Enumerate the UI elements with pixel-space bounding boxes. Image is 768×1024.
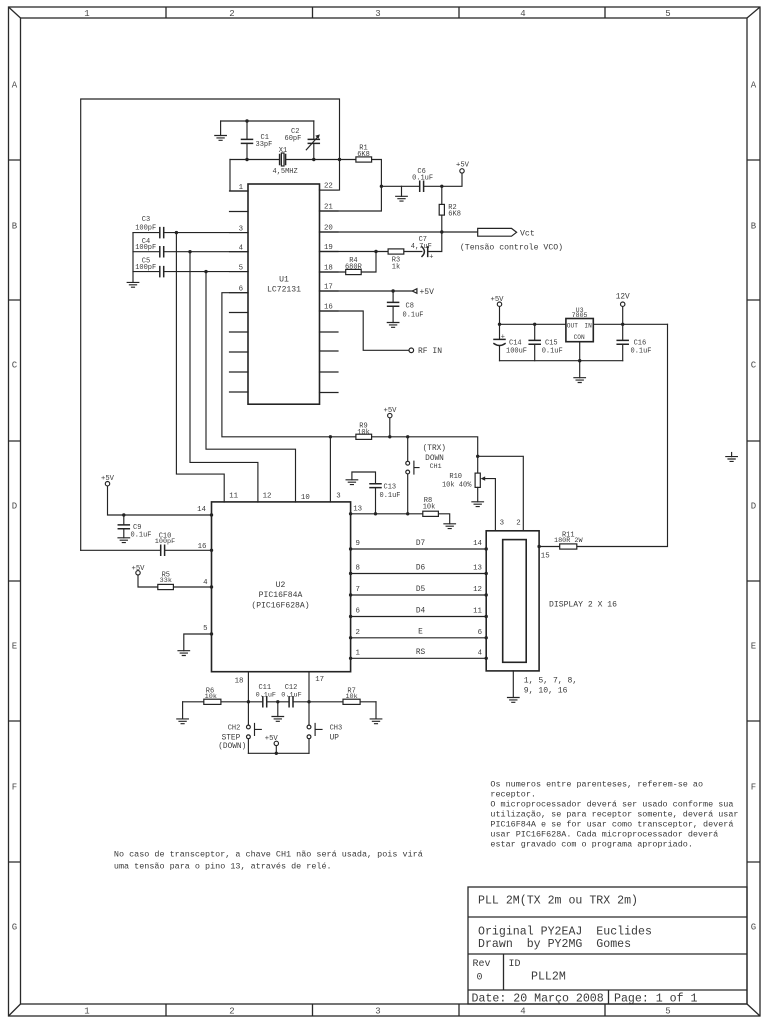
svg-text:D6: D6 — [416, 564, 426, 572]
junction R10/display2 node — [476, 455, 479, 458]
U1 pin numbers left: 1,3,4,5,6 — [239, 184, 244, 294]
junction U2 pin16 — [210, 549, 213, 552]
wire display bottom ground stub — [512, 671, 514, 698]
wire U1 pin5 to U2 pin10 — [206, 272, 296, 502]
junction +5V tap R9 line — [388, 435, 391, 438]
svg-text:2: 2 — [229, 9, 234, 19]
ground G14 (display) — [508, 698, 520, 703]
svg-text:11: 11 — [229, 493, 238, 501]
resistor R4 — [346, 269, 362, 274]
capacitor C15 — [529, 340, 540, 344]
svg-text:Rev: Rev — [473, 959, 491, 970]
svg-text:(TRX): (TRX) — [423, 445, 446, 453]
label R11 180R 2W — [554, 532, 583, 546]
ground G13 (C13) — [346, 480, 358, 485]
wire +5V switches stem — [275, 746, 277, 754]
svg-text:13: 13 — [473, 565, 482, 573]
svg-text:uma tensão para o pino 13, atr: uma tensão para o pino 13, através de re… — [114, 862, 332, 872]
label R7 10k — [345, 687, 357, 701]
capacitor C7 (polarized) — [422, 247, 434, 262]
svg-text:10k 40%: 10k 40% — [442, 481, 472, 489]
svg-text:A: A — [751, 81, 757, 91]
wire U1 pin17 to +5V — [320, 290, 413, 292]
svg-text:R10: R10 — [449, 473, 462, 481]
label C5 100pF — [135, 258, 156, 273]
wire U1 C5 line — [133, 271, 248, 273]
junction display pin15 node — [537, 545, 540, 548]
wire +5V stem (R9 line) — [389, 418, 391, 437]
label CH1 (TRX) DOWN — [423, 445, 446, 470]
wire R6/C11/C12/R7 line — [183, 701, 376, 703]
ground G7 (U2 pin5) — [178, 651, 190, 656]
svg-text:G: G — [12, 923, 17, 933]
wire crystal line (XIN/XOUT) — [230, 159, 356, 161]
label C9 0.1uF — [131, 524, 152, 540]
wire R10 wiper to display pin3 — [483, 479, 495, 531]
wire U1 pin19 / R3 / C7 — [320, 232, 442, 252]
svg-text:4,7uF: 4,7uF — [411, 243, 432, 251]
wire U1 pin16 to RF IN — [320, 311, 410, 350]
switch CH2 — [247, 702, 262, 754]
svg-text:18: 18 — [235, 677, 244, 685]
junction pin3 drop — [175, 231, 178, 234]
wire CH2-CH3 bottom link — [248, 752, 309, 754]
resistor R11 — [560, 544, 577, 549]
resistor R7 — [343, 699, 360, 704]
wire oscillator loop box to C10 bus — [81, 99, 340, 550]
wire 7805 CON to ground — [579, 342, 581, 378]
power P1 (C6 line) +5V — [460, 169, 464, 173]
svg-text:14: 14 — [197, 506, 206, 514]
svg-text:LC72131: LC72131 — [267, 286, 301, 295]
label C4 100pF — [135, 238, 156, 252]
junction display pin12 — [485, 593, 488, 596]
svg-text:12: 12 — [263, 493, 272, 501]
svg-text:9: 9 — [356, 540, 360, 548]
label C7 4,7uF — [411, 236, 432, 251]
svg-text:100uF: 100uF — [506, 348, 527, 356]
svg-text:10k: 10k — [357, 429, 370, 437]
U2 pin numbers left: 14,16,4,5 — [197, 506, 208, 633]
R10 wiper arrowhead — [481, 476, 486, 480]
junction C14 top — [498, 323, 501, 326]
svg-text:10k: 10k — [423, 504, 436, 512]
ground G15 (standalone right) — [726, 457, 738, 462]
wire U1 C3 line — [133, 232, 248, 234]
wire C13 branch — [352, 472, 376, 514]
wire U2 pin17 stub — [308, 672, 310, 702]
capacitor C4 — [160, 247, 164, 257]
junction pin20/R2/C7 node — [440, 230, 443, 233]
svg-text:Vct: Vct — [520, 229, 535, 238]
ground G9 (R6) — [177, 719, 189, 724]
junction display pin4 — [485, 657, 488, 660]
junction display pin11 — [485, 615, 488, 618]
junction U2 pin3 drop — [329, 435, 332, 438]
svg-text:+5V: +5V — [491, 296, 505, 304]
ground G2 (C6 line) — [396, 196, 408, 201]
wire D7 line (U2 pin 9 to display pin 14) — [351, 548, 487, 550]
svg-text:1: 1 — [84, 1007, 89, 1017]
svg-text:C: C — [751, 361, 757, 371]
label C6 0.1uF — [412, 168, 433, 183]
junction U2 pin1 — [349, 657, 352, 660]
svg-text:Date: 20 Março 2008: Date: 20 Março 2008 — [472, 992, 604, 1005]
label R3 1k — [392, 256, 400, 271]
svg-text:No caso de transceptor, a chav: No caso de transceptor, a chave CH1 não … — [114, 850, 423, 860]
ground G5 (R10) — [472, 502, 484, 507]
wire C3/C4/C5 ground bus — [132, 233, 134, 283]
capacitor C6 — [420, 181, 424, 191]
label R10 10k 40% — [442, 473, 472, 489]
power P5 (12V) 12V — [621, 302, 625, 306]
wire R2 branch — [441, 186, 443, 232]
label R1 6K8 — [357, 144, 370, 159]
svg-text:Drawn by PY2MG Gomes: Drawn by PY2MG Gomes — [478, 938, 631, 951]
svg-text:12: 12 — [473, 586, 482, 594]
capacitor C12 — [289, 697, 293, 707]
crystal X1 — [280, 153, 286, 166]
svg-text:33k: 33k — [160, 577, 172, 585]
svg-text:2: 2 — [356, 629, 360, 637]
svg-text:E: E — [751, 642, 756, 652]
svg-text:1: 1 — [84, 9, 89, 19]
svg-text:+5V: +5V — [456, 162, 470, 170]
wire R11 to 12V rail — [539, 324, 667, 546]
svg-text:0.1uF: 0.1uF — [131, 532, 152, 540]
svg-text:0.1uF: 0.1uF — [380, 492, 401, 500]
junction display pin13 — [485, 572, 488, 575]
svg-text:ID: ID — [509, 959, 521, 970]
wire U1 pin4 to U2 pin12 — [190, 252, 258, 502]
svg-text:C13: C13 — [384, 483, 397, 491]
IC U2 PIC16F84A body — [212, 502, 351, 672]
IC U3 7805 body — [566, 307, 593, 342]
svg-text:3: 3 — [375, 9, 380, 19]
label X1 4,5MHZ — [273, 147, 298, 176]
svg-text:CH3: CH3 — [330, 725, 343, 733]
svg-text:1k: 1k — [392, 263, 400, 271]
wire U2 pin5 to ground — [184, 634, 212, 651]
capacitor C1 — [242, 139, 253, 143]
svg-text:18: 18 — [324, 265, 333, 273]
capacitor C2 (variable) — [308, 139, 319, 143]
junction pin5 drop — [204, 270, 207, 273]
label display grounded pins 1,5,7,8,9,10,16 — [524, 677, 577, 696]
svg-text:0.1uF: 0.1uF — [403, 311, 424, 319]
capacitor C3 — [160, 228, 164, 238]
svg-text:UP: UP — [330, 735, 340, 743]
svg-text:Original PY2EAJ Euclides: Original PY2EAJ Euclides — [478, 925, 652, 938]
svg-text:C3: C3 — [142, 216, 150, 224]
svg-text:0.1uF: 0.1uF — [542, 348, 563, 356]
svg-text:X1: X1 — [279, 147, 287, 155]
wire R10 bottom to ground — [477, 487, 479, 501]
port Vct output flag — [478, 228, 517, 236]
svg-text:0.1uF: 0.1uF — [631, 348, 652, 356]
junction C6 line tap — [380, 185, 383, 188]
svg-text:180R 2W: 180R 2W — [554, 537, 583, 545]
svg-text:CH2: CH2 — [228, 725, 241, 733]
svg-text:+5V: +5V — [265, 735, 279, 743]
junction R2 top — [440, 185, 443, 188]
svg-text:G: G — [751, 923, 756, 933]
capacitor C9 — [118, 525, 129, 529]
ground G1 (crystal top line) — [215, 136, 227, 141]
svg-text:DISPLAY 2 X 16: DISPLAY 2 X 16 — [549, 601, 617, 610]
svg-text:(DOWN): (DOWN) — [218, 743, 246, 751]
svg-text:D5: D5 — [416, 586, 426, 594]
power P9 (switches) +5V — [274, 741, 278, 745]
resistor R8 — [423, 511, 439, 516]
svg-text:PIC16F84A: PIC16F84A — [259, 591, 303, 600]
svg-text:CON: CON — [574, 334, 585, 341]
junction U2 pin7 — [349, 593, 352, 596]
resistor R3 — [388, 249, 404, 254]
label C15 0.1uF — [542, 340, 563, 356]
wire U1 pin3 to U2 pin11 — [176, 233, 224, 502]
svg-text:33pF: 33pF — [256, 141, 273, 149]
label C10 100pF — [155, 533, 175, 547]
svg-text:21: 21 — [324, 204, 333, 212]
label C2 60pF — [285, 128, 302, 143]
wire U1 pin20 to Vct — [320, 231, 478, 233]
svg-text:OUT: OUT — [567, 322, 578, 329]
svg-text:100pF: 100pF — [155, 538, 175, 546]
title block — [468, 887, 747, 1005]
svg-text:B: B — [751, 222, 757, 232]
wire C15 leads — [534, 324, 536, 360]
svg-text:10k: 10k — [205, 693, 217, 701]
svg-text:(Tensão controle VCO): (Tensão controle VCO) — [460, 242, 563, 252]
svg-text:2: 2 — [229, 1007, 234, 1017]
wire R1 to U1 pin21 — [320, 160, 382, 212]
svg-text:A: A — [12, 81, 18, 91]
wire U2 pin16 / C10 — [81, 549, 212, 551]
wire U1 pin18 / R4 — [320, 252, 377, 273]
svg-text:680R: 680R — [345, 264, 363, 272]
svg-text:4: 4 — [478, 649, 483, 657]
wire C14 leads — [499, 324, 501, 360]
ground G4 (7805 CON) — [574, 378, 586, 383]
wire U1 C4 line — [133, 251, 248, 253]
junction U2 pin9 — [349, 547, 352, 550]
svg-text:4: 4 — [520, 9, 525, 19]
wire D4 line (U2 pin 6 to display pin 11) — [351, 616, 487, 618]
svg-text:U1: U1 — [279, 276, 289, 285]
ground G12 (R8) — [444, 524, 456, 529]
svg-text:RS: RS — [416, 649, 426, 657]
junction C13 tap — [374, 512, 377, 515]
label R5 33k — [160, 571, 172, 585]
svg-text:+: + — [429, 254, 433, 262]
junction C2 bottom — [312, 158, 315, 161]
svg-text:C: C — [12, 361, 18, 371]
svg-text:2: 2 — [516, 519, 520, 527]
power P4 (7805 OUT) +5V — [497, 302, 501, 306]
svg-text:100pF: 100pF — [135, 264, 156, 272]
svg-text:D: D — [751, 502, 756, 512]
svg-text:D7: D7 — [416, 540, 426, 548]
svg-text:1, 5, 7, 8,: 1, 5, 7, 8, — [524, 677, 577, 686]
junction CON node — [578, 359, 581, 362]
junction U2 pin8 — [349, 572, 352, 575]
svg-text:12V: 12V — [616, 294, 630, 302]
wire U2 pin14 — [108, 486, 212, 515]
svg-text:4: 4 — [203, 579, 208, 587]
svg-text:O microprocessador deverá ser: O microprocessador deverá ser usado conf… — [490, 800, 733, 810]
svg-text:+: + — [501, 333, 505, 341]
wire D6 line (U2 pin 8 to display pin 13) — [351, 573, 487, 575]
resistor R5 — [158, 584, 174, 589]
svg-text:0.1uF: 0.1uF — [281, 691, 301, 699]
annotation note (transceptor / CH1) — [114, 850, 423, 872]
U1 pin numbers right: 22,21,20,19,18,17,16 — [324, 183, 333, 312]
junction U2 pin14 — [210, 513, 213, 516]
resistor R6 — [204, 699, 221, 704]
wire to display pin2 — [478, 456, 524, 531]
IC U1 LC72131 body — [248, 184, 320, 404]
svg-text:Os numeros entre parenteses, r: Os numeros entre parenteses, referem-se … — [490, 779, 703, 789]
junction CH1 bottom tap — [406, 512, 409, 515]
svg-text:0: 0 — [477, 973, 483, 984]
svg-text:+5V: +5V — [132, 565, 146, 573]
junction C8 tap — [391, 289, 394, 292]
svg-text:7: 7 — [356, 586, 360, 594]
junction pin18 node — [247, 700, 250, 703]
U2 pin numbers bottom: 18,17 — [235, 676, 324, 685]
svg-text:IN: IN — [584, 322, 592, 329]
label C13 0.1uF — [380, 483, 401, 500]
U1 pin stubs right — [320, 190, 339, 392]
svg-text:F: F — [12, 783, 17, 793]
junction C15 top — [533, 323, 536, 326]
svg-text:0.1uF: 0.1uF — [256, 691, 276, 699]
switch CH3 — [307, 702, 322, 754]
svg-text:PLL2M: PLL2M — [531, 971, 566, 984]
svg-text:8: 8 — [356, 565, 360, 573]
wire C9 branch — [123, 515, 125, 538]
svg-text:DOWN: DOWN — [425, 455, 444, 463]
label C16 0.1uF — [631, 340, 652, 356]
svg-text:5: 5 — [665, 1007, 670, 1017]
wire U2 pin3 drop — [329, 437, 331, 502]
label R2 6K8 — [448, 204, 461, 219]
capacitor C13 — [370, 484, 381, 488]
svg-text:usar PIC16F628A. Cada micropro: usar PIC16F628A. Cada microprocessador d… — [490, 830, 718, 840]
svg-text:D: D — [12, 502, 17, 512]
wire U1 pin1 — [230, 160, 248, 192]
svg-text:+5V: +5V — [101, 475, 115, 483]
wire C2 leads — [313, 121, 315, 160]
label CH2 STEP (DOWN) — [218, 725, 246, 751]
wire C8 branch — [392, 291, 394, 323]
resistor R9 — [356, 434, 372, 439]
wire D5 line (U2 pin 7 to display pin 12) — [351, 594, 487, 596]
svg-text:CH1: CH1 — [430, 463, 442, 470]
resistor R2 — [439, 204, 444, 215]
svg-text:PIC16F84A e se for usar como t: PIC16F84A e se for usar como transceptor… — [490, 820, 733, 830]
junction U2 pin4 — [210, 585, 213, 588]
svg-text:5: 5 — [665, 9, 670, 19]
U1 pin stubs left — [230, 191, 249, 392]
svg-text:3: 3 — [500, 519, 504, 527]
svg-text:7805: 7805 — [572, 312, 588, 319]
label R9 10k — [357, 422, 370, 437]
svg-text:6K8: 6K8 — [357, 151, 370, 159]
svg-text:17: 17 — [324, 284, 333, 292]
svg-text:estar gravado com o programa a: estar gravado com o programa apropriado. — [490, 840, 693, 850]
ground G3 (C8) — [387, 323, 399, 328]
svg-text:4: 4 — [520, 1007, 525, 1017]
label R6 10k — [205, 687, 217, 701]
capacitor C14 (polarized) — [494, 333, 505, 345]
wire U2 pin18 stub — [247, 672, 249, 702]
svg-text:E: E — [418, 629, 423, 637]
wire +5V rail (7805 OUT) — [500, 307, 566, 325]
label C3 100pF — [135, 216, 156, 232]
junction pin22 tap — [338, 158, 341, 161]
wire crystal top line — [221, 120, 314, 122]
svg-text:(PIC16F628A): (PIC16F628A) — [251, 601, 309, 610]
svg-text:11: 11 — [473, 608, 482, 616]
wire U2 pin13 line — [351, 514, 450, 524]
svg-text:4,5MHZ: 4,5MHZ — [273, 168, 298, 176]
svg-text:Page: 1 of 1: Page: 1 of 1 — [614, 992, 698, 1005]
svg-text:10: 10 — [301, 494, 310, 502]
wire C1 leads — [246, 121, 248, 160]
svg-text:3: 3 — [336, 493, 340, 501]
wire R10 top lead — [477, 456, 479, 473]
junction C11/C12 mid — [276, 700, 279, 703]
wire U1 pin6 to R9 line — [222, 293, 478, 457]
svg-text:F: F — [751, 783, 756, 793]
wire C11/C12 mid ground — [277, 702, 279, 717]
power P8 (U2 pin4) +5V — [136, 571, 140, 575]
svg-text:utilização, se para receptor s: utilização, se para receptor somente, de… — [490, 810, 738, 820]
svg-text:16: 16 — [324, 304, 333, 312]
resistor R1 — [356, 157, 372, 162]
junction U2 pin5 — [210, 632, 213, 635]
svg-text:D4: D4 — [416, 607, 426, 615]
wire E line (U2 pin 2 to display pin 6) — [351, 637, 487, 639]
svg-text:RF IN: RF IN — [418, 347, 442, 356]
junction pin17 node — [307, 700, 310, 703]
junction U2 pin13 — [349, 512, 352, 515]
capacitor C5 — [160, 267, 164, 277]
junction R4 tap on pin19 — [374, 250, 377, 253]
svg-text:6K8: 6K8 — [448, 211, 461, 219]
svg-text:U2: U2 — [276, 581, 286, 590]
ground G8 (C9) — [118, 538, 130, 543]
wire U1 pin22 — [320, 160, 340, 191]
wire C6 +5V line — [381, 173, 462, 186]
switch CH1 — [406, 437, 419, 514]
svg-text:13: 13 — [353, 505, 362, 513]
junction C1 top — [245, 119, 248, 122]
junction C16/12V node — [621, 323, 624, 326]
label C14 100uF — [506, 340, 527, 356]
wire 12V rail (7805 IN) — [593, 307, 667, 325]
ground G6 (C3-C5 bus) — [127, 282, 139, 287]
svg-text:E: E — [12, 642, 17, 652]
svg-text:100pF: 100pF — [135, 244, 156, 252]
U2 pin numbers top: 11,12,10,3 — [229, 493, 341, 502]
svg-text:PLL 2M(TX 2m ou TRX 2m): PLL 2M(TX 2m ou TRX 2m) — [478, 895, 638, 908]
svg-text:9, 10, 16: 9, 10, 16 — [524, 686, 568, 695]
svg-text:10k: 10k — [345, 693, 357, 701]
capacitor C8 — [388, 302, 399, 306]
